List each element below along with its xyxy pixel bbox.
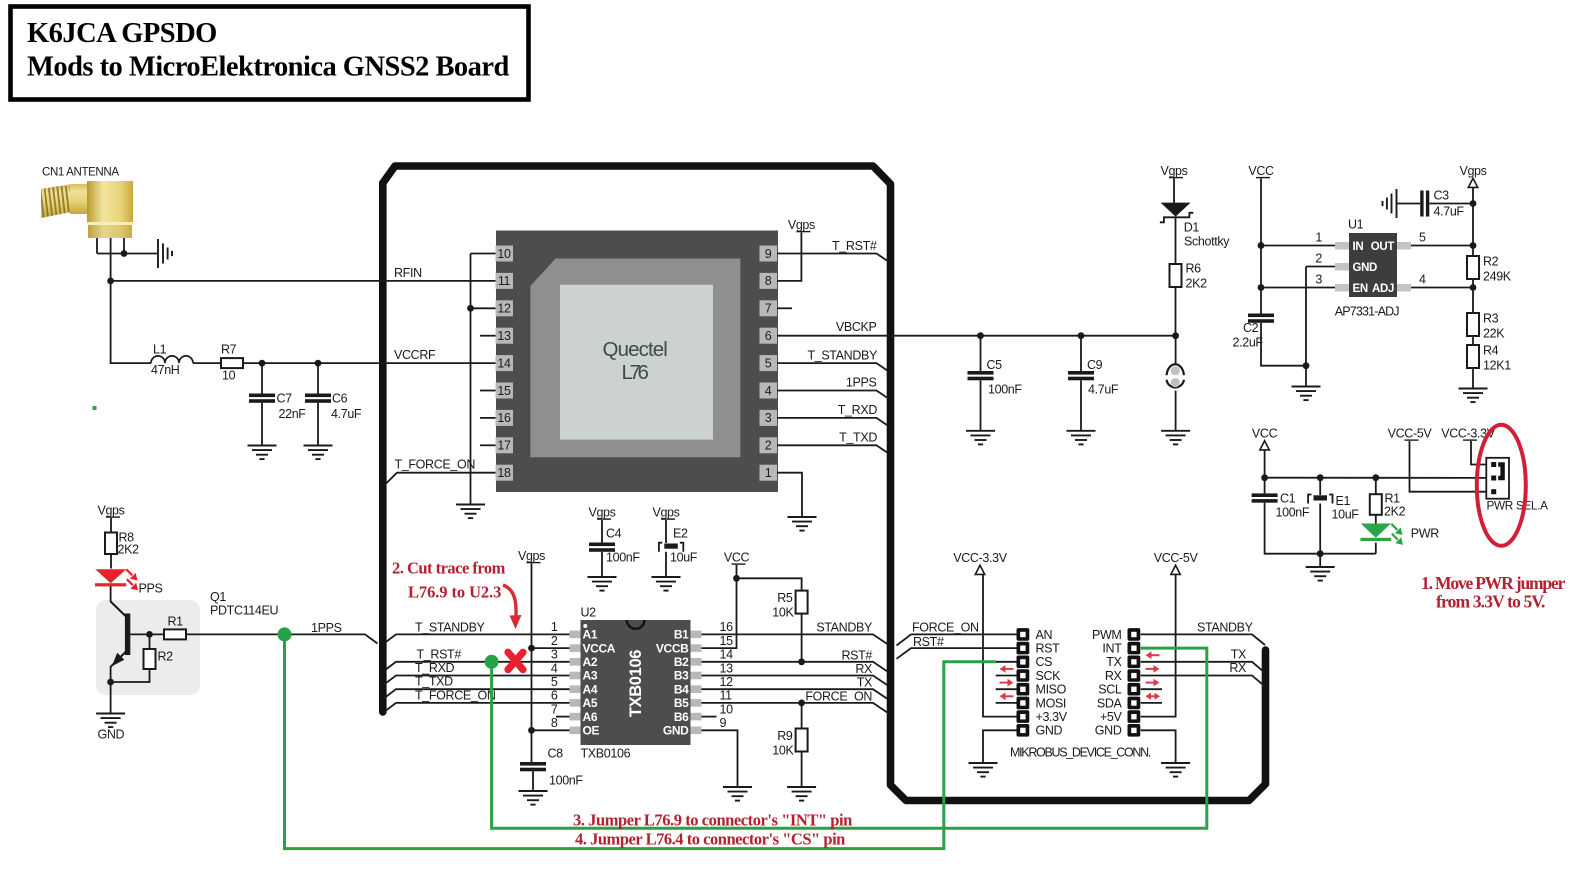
svg-text:R7: R7 <box>221 343 237 357</box>
svg-text:TX: TX <box>1106 655 1122 669</box>
svg-text:2K2: 2K2 <box>1186 277 1208 291</box>
svg-text:11: 11 <box>498 274 511 288</box>
wire <box>777 335 1176 337</box>
svg-text:10uF: 10uF <box>670 551 698 565</box>
svg-text:13: 13 <box>497 329 511 343</box>
svg-text:PPS: PPS <box>139 582 163 596</box>
svg-text:1PPS: 1PPS <box>846 376 877 390</box>
wire <box>1429 203 1473 205</box>
wire <box>665 552 667 577</box>
svg-text:VCCA: VCCA <box>583 641 616 655</box>
transistor Q1 PDTC114EU block <box>96 600 200 695</box>
power label Vgps <box>788 218 815 232</box>
svg-text:R5: R5 <box>777 591 793 605</box>
svg-text:OUT: OUT <box>1371 241 1395 253</box>
junction <box>121 250 128 257</box>
junction <box>1172 332 1179 339</box>
wire <box>492 648 1207 828</box>
junction <box>1258 284 1265 291</box>
svg-text:C8: C8 <box>548 747 564 761</box>
wire <box>285 634 996 848</box>
wire <box>480 335 496 337</box>
junction <box>1258 242 1265 249</box>
svg-text:R9: R9 <box>777 729 793 743</box>
wire <box>556 716 571 718</box>
svg-text:B1: B1 <box>674 628 689 642</box>
red annotation arrow <box>1000 693 1014 701</box>
wire <box>1175 391 1177 431</box>
ground <box>456 505 485 519</box>
ground (rotated left) <box>1383 189 1397 218</box>
svg-text:4. Jumper L76.4 to connector's: 4. Jumper L76.4 to connector's "CS" pin <box>575 830 845 849</box>
junction <box>146 631 153 638</box>
svg-text:T_RXD: T_RXD <box>415 661 455 675</box>
wire <box>1411 245 1473 247</box>
wire <box>110 586 112 602</box>
resistor R2 <box>1467 256 1479 279</box>
svg-text:E2: E2 <box>673 527 688 541</box>
svg-text:4.7uF: 4.7uF <box>1434 205 1465 219</box>
resistor R1 <box>1370 494 1382 515</box>
power label Vgps <box>518 549 545 563</box>
header pin +5V <box>1128 710 1141 723</box>
power label Vgps <box>1459 164 1486 187</box>
wire <box>111 280 496 282</box>
wire <box>702 662 890 673</box>
ground <box>1459 389 1488 403</box>
svg-text:7: 7 <box>765 302 772 316</box>
wire <box>110 518 112 533</box>
svg-text:249K: 249K <box>1483 270 1512 284</box>
svg-text:RX: RX <box>855 662 873 676</box>
svg-text:GND: GND <box>1036 724 1063 738</box>
power label Vgps <box>652 506 679 520</box>
svg-text:3: 3 <box>765 411 772 425</box>
junction <box>107 679 114 686</box>
wire <box>1080 380 1082 431</box>
svg-text:7: 7 <box>551 702 558 716</box>
power label VCC <box>724 551 750 565</box>
junction <box>977 332 984 339</box>
svg-text:FORCE_ON: FORCE_ON <box>805 689 872 703</box>
capacitor C4 100nF <box>589 543 615 552</box>
header pin SDA <box>1128 697 1141 710</box>
wire <box>777 307 792 309</box>
wire <box>317 363 319 393</box>
svg-text:2K2: 2K2 <box>1384 505 1406 519</box>
junction <box>798 658 805 665</box>
junction <box>1470 200 1477 207</box>
svg-text:VCC-3.3V: VCC-3.3V <box>953 551 1007 565</box>
wire <box>149 634 151 649</box>
resistor R8 <box>105 533 117 555</box>
svg-text:TXB0106: TXB0106 <box>627 650 645 717</box>
wire <box>980 336 982 371</box>
svg-text:B3: B3 <box>674 669 689 683</box>
svg-text:MOSI: MOSI <box>1036 696 1067 710</box>
wire <box>317 403 319 446</box>
svg-text:1: 1 <box>1315 231 1322 245</box>
ground <box>1161 763 1190 777</box>
svg-text:R1: R1 <box>168 615 184 629</box>
svg-text:Vgps: Vgps <box>788 218 815 232</box>
wire <box>193 362 221 364</box>
svg-text:3. Jumper L76.9 to connector's: 3. Jumper L76.9 to connector's "INT" pin <box>573 811 852 830</box>
svg-text:VCC-5V: VCC-5V <box>1154 551 1199 565</box>
wire <box>1175 287 1177 336</box>
wire <box>897 634 1017 645</box>
svg-text:4: 4 <box>551 661 558 675</box>
wire <box>1175 217 1177 264</box>
wire <box>471 307 496 309</box>
svg-text:R3: R3 <box>1483 312 1499 326</box>
L76 pin 5 <box>760 355 778 371</box>
resistor R4 <box>1467 345 1479 368</box>
svg-text:L76: L76 <box>622 361 649 384</box>
svg-text:L76.9 to U2.3: L76.9 to U2.3 <box>408 583 501 602</box>
svg-text:SDA: SDA <box>1097 696 1123 710</box>
red curved arrow <box>503 585 516 618</box>
svg-text:RST: RST <box>1036 642 1061 656</box>
wire <box>110 554 112 569</box>
wire <box>702 565 737 648</box>
power label VCC-3.3V <box>1441 427 1495 441</box>
wire <box>1141 730 1176 763</box>
red annotation arrow <box>1000 665 1014 673</box>
ground <box>787 787 816 801</box>
svg-text:C4: C4 <box>606 527 622 541</box>
resistor R2 <box>144 649 156 669</box>
junction <box>1078 332 1085 339</box>
svg-text:C9: C9 <box>1087 358 1103 372</box>
resistor R1 <box>164 629 186 639</box>
svg-text:5: 5 <box>551 675 558 689</box>
wire <box>777 391 890 400</box>
L76 pin 9 <box>760 246 778 262</box>
Q1 NPN symbol <box>111 602 128 667</box>
svg-text:A3: A3 <box>583 669 598 683</box>
svg-text:T_FORCE_ON: T_FORCE_ON <box>415 688 496 702</box>
wire <box>1141 676 1265 687</box>
svg-text:Vgps: Vgps <box>1459 164 1486 178</box>
wire <box>532 729 572 731</box>
wire <box>996 661 1017 663</box>
junction <box>259 360 266 367</box>
power label VCC <box>1248 164 1274 178</box>
wire <box>777 363 890 372</box>
svg-text:Schottky: Schottky <box>1184 235 1230 249</box>
L76 pin 12 <box>496 300 514 316</box>
green junction at 1PPS <box>278 627 292 641</box>
wire <box>601 520 603 543</box>
wire <box>801 614 803 662</box>
wire <box>996 675 1017 677</box>
L76 pin 16 <box>496 410 514 426</box>
wire <box>384 634 571 643</box>
wire <box>1260 179 1262 314</box>
capacitor C9 4.7uF <box>1068 371 1094 380</box>
L76 pin 6 <box>760 328 778 344</box>
svg-text:10: 10 <box>497 247 511 261</box>
wire <box>243 362 496 364</box>
svg-text:8: 8 <box>551 716 558 730</box>
svg-text:PDTC114EU: PDTC114EU <box>210 604 278 618</box>
svg-text:GND: GND <box>1095 724 1122 738</box>
ground <box>519 791 548 805</box>
wire <box>1411 287 1473 289</box>
header pin GND <box>1128 724 1141 737</box>
L76 pin 2 <box>760 437 778 453</box>
svg-text:15: 15 <box>497 384 511 398</box>
svg-text:+5V: +5V <box>1100 710 1123 724</box>
wire <box>1306 266 1335 268</box>
wire <box>1141 634 1265 645</box>
capacitor C5 100nF <box>968 371 994 380</box>
power label VCC-5V <box>1388 427 1433 441</box>
svg-text:RST#: RST# <box>913 635 944 649</box>
wire <box>1265 503 1376 554</box>
wire <box>96 238 98 254</box>
svg-text:PWM: PWM <box>1092 628 1122 642</box>
wire <box>1265 477 1487 479</box>
junction <box>107 278 114 285</box>
svg-text:R2: R2 <box>1483 255 1499 269</box>
inductor L1 47nH <box>151 356 193 363</box>
svg-text:T_STANDBY: T_STANDBY <box>415 621 486 635</box>
wire <box>532 771 534 791</box>
power label Vgps <box>588 506 615 520</box>
ground <box>788 517 817 531</box>
svg-text:RFIN: RFIN <box>394 266 422 280</box>
svg-text:R6: R6 <box>1186 262 1202 276</box>
svg-text:6: 6 <box>551 689 558 703</box>
wire <box>1375 478 1377 495</box>
svg-text:4.7uF: 4.7uF <box>1088 383 1119 397</box>
capacitor C6 4.7uF <box>305 394 331 403</box>
L76 pin 13 <box>496 328 514 344</box>
svg-text:3: 3 <box>551 648 558 662</box>
svg-text:5: 5 <box>1419 231 1426 245</box>
L76 pin 7 <box>760 300 778 316</box>
svg-text:9: 9 <box>765 247 772 261</box>
svg-text:STANDBY: STANDBY <box>1197 621 1254 635</box>
svg-text:TX: TX <box>857 676 873 690</box>
power label VCC <box>1252 427 1278 450</box>
wire <box>384 676 571 685</box>
ground <box>966 431 995 445</box>
svg-text:1: 1 <box>765 466 772 480</box>
svg-text:GND: GND <box>1353 262 1378 274</box>
module U: Quectel L76 <box>496 231 778 493</box>
svg-text:Vgps: Vgps <box>652 506 679 520</box>
wire <box>471 253 496 255</box>
svg-text:22K: 22K <box>1483 327 1505 341</box>
wire <box>702 689 890 700</box>
svg-text:4.7uF: 4.7uF <box>331 407 362 421</box>
wire <box>1141 688 1162 690</box>
wire <box>801 703 803 729</box>
L76 pin 1 <box>760 465 778 481</box>
wire <box>480 390 496 392</box>
wire <box>1175 336 1177 364</box>
header pin SCK <box>1017 669 1030 682</box>
wire <box>111 281 151 363</box>
L76 pin 4 <box>760 383 778 399</box>
wire <box>702 730 738 787</box>
junction <box>1317 550 1324 557</box>
svg-text:STANDBY: STANDBY <box>816 621 873 635</box>
svg-text:VCCRF: VCCRF <box>394 348 436 362</box>
svg-text:U1: U1 <box>1348 218 1364 232</box>
svg-text:14: 14 <box>497 356 511 370</box>
svg-text:+3.3V: +3.3V <box>1036 710 1068 724</box>
svg-text:Vgps: Vgps <box>97 504 124 518</box>
wire <box>1472 336 1474 345</box>
svg-text:R4: R4 <box>1483 344 1499 358</box>
junction <box>798 700 805 707</box>
wire <box>1471 441 1486 465</box>
header pin CS <box>1017 656 1030 669</box>
wire <box>1261 245 1335 247</box>
ground <box>304 446 333 460</box>
svg-text:C3: C3 <box>1434 189 1450 203</box>
svg-text:14: 14 <box>720 648 734 662</box>
wire <box>1080 336 1082 371</box>
svg-text:TX: TX <box>1231 647 1247 661</box>
svg-text:15: 15 <box>720 634 734 648</box>
junction <box>315 360 322 367</box>
svg-text:4: 4 <box>765 384 772 398</box>
ground <box>1067 431 1096 445</box>
svg-text:9: 9 <box>720 716 727 730</box>
svg-text:C6: C6 <box>332 392 348 406</box>
L76 pin 11 <box>496 273 514 289</box>
svg-text:T_FORCE_ON: T_FORCE_ON <box>395 458 476 472</box>
svg-text:C1: C1 <box>1280 492 1296 506</box>
header pin +3.3V <box>1017 710 1030 723</box>
testpoint <box>1167 364 1184 387</box>
svg-text:16: 16 <box>497 411 511 425</box>
svg-text:1. Move PWR jumper: 1. Move PWR jumper <box>1421 573 1566 593</box>
svg-text:8: 8 <box>765 274 772 288</box>
green junction at T_RST# <box>485 655 499 669</box>
capacitor E2 10uF (electrolytic) <box>659 543 683 552</box>
wire <box>1319 504 1321 568</box>
ground <box>588 577 617 591</box>
wire <box>130 633 164 635</box>
svg-text:2: 2 <box>551 634 558 648</box>
board outline <box>383 166 1266 801</box>
svg-text:11: 11 <box>720 689 733 703</box>
svg-text:R2: R2 <box>158 650 174 664</box>
svg-text:16: 16 <box>720 620 734 634</box>
svg-text:VCC-5V: VCC-5V <box>1388 427 1433 441</box>
L76 pin 10 <box>496 246 514 262</box>
svg-text:Vgps: Vgps <box>588 506 615 520</box>
L76 pin 8 <box>760 273 778 289</box>
L76 pin 14 <box>496 355 514 371</box>
header pin GND <box>1017 724 1030 737</box>
red X (cut mark) <box>508 652 523 669</box>
svg-text:B5: B5 <box>674 696 689 710</box>
svg-text:ADJ: ADJ <box>1372 283 1394 295</box>
svg-text:RST#: RST# <box>841 648 872 662</box>
junction <box>1261 474 1268 481</box>
svg-text:T_STANDBY: T_STANDBY <box>807 349 878 363</box>
L76 pin 15 <box>496 383 514 399</box>
svg-text:T_RXD: T_RXD <box>838 403 878 417</box>
svg-text:17: 17 <box>497 439 511 453</box>
svg-text:10: 10 <box>222 369 236 383</box>
wire <box>470 254 472 505</box>
wire <box>384 473 496 486</box>
LED PWR (green) <box>1360 524 1403 545</box>
svg-text:10K: 10K <box>772 744 794 758</box>
svg-text:13: 13 <box>720 661 734 675</box>
svg-text:K6JCA GPSDO: K6JCA GPSDO <box>27 18 217 49</box>
ground <box>1292 387 1321 401</box>
svg-text:2.2uF: 2.2uF <box>1233 336 1264 350</box>
resistor R9 <box>796 729 808 752</box>
svg-text:100nF: 100nF <box>1276 506 1310 520</box>
ground <box>1306 567 1335 581</box>
svg-text:SCL: SCL <box>1098 683 1122 697</box>
wire <box>983 730 1017 763</box>
wire <box>777 233 801 281</box>
wire <box>983 575 1017 717</box>
stray green mark <box>93 406 97 410</box>
svg-text:3: 3 <box>1315 273 1322 287</box>
header pin MISO <box>1017 683 1030 696</box>
svg-text:C7: C7 <box>277 392 293 406</box>
header pin PWM <box>1128 628 1141 641</box>
wire <box>384 689 571 698</box>
power label Vgps <box>97 504 124 518</box>
svg-text:Vgps: Vgps <box>1160 164 1187 178</box>
svg-text:FORCE_ON: FORCE_ON <box>912 621 979 635</box>
svg-text:5: 5 <box>765 356 772 370</box>
wire <box>97 253 158 255</box>
svg-text:B6: B6 <box>674 710 689 724</box>
junction <box>1303 362 1310 369</box>
regulator U1 AP7331-ADJ <box>1315 218 1426 319</box>
svg-text:from 3.3V to 5V.: from 3.3V to 5V. <box>1436 592 1545 612</box>
svg-text:RX: RX <box>1229 661 1247 675</box>
wire <box>897 648 1017 659</box>
wire <box>532 647 572 649</box>
IC U2 TXB0106 <box>551 606 733 761</box>
svg-text:T_TXD: T_TXD <box>839 430 877 444</box>
svg-text:GND: GND <box>98 728 125 742</box>
svg-text:12: 12 <box>497 302 511 316</box>
wire <box>110 666 112 714</box>
wire <box>1397 203 1421 205</box>
wire <box>1173 179 1175 204</box>
svg-text:12: 12 <box>720 675 734 689</box>
ground (rotated right) <box>158 239 172 268</box>
svg-text:2: 2 <box>765 439 772 453</box>
wire <box>384 703 571 712</box>
svg-text:1PPS: 1PPS <box>311 621 342 635</box>
svg-text:10K: 10K <box>772 606 794 620</box>
junction <box>1470 242 1477 249</box>
title box <box>11 7 529 100</box>
header pin SCL <box>1128 683 1141 696</box>
wire <box>123 238 125 254</box>
svg-text:AN: AN <box>1036 628 1053 642</box>
wire <box>702 676 890 687</box>
svg-text:18: 18 <box>497 466 511 480</box>
